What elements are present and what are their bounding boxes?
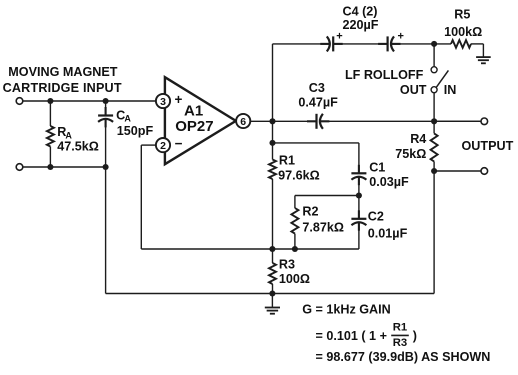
svg-text:OUTPUT: OUTPUT — [462, 139, 514, 153]
svg-text:A: A — [124, 113, 131, 123]
svg-text:6: 6 — [240, 116, 246, 128]
svg-text:R2: R2 — [302, 204, 318, 218]
svg-text:150pF: 150pF — [117, 124, 154, 138]
svg-text:0.03µF: 0.03µF — [369, 175, 409, 189]
svg-text:CARTRIDGE INPUT: CARTRIDGE INPUT — [3, 81, 122, 95]
svg-text:C2: C2 — [368, 210, 384, 224]
svg-text:R4: R4 — [410, 132, 426, 146]
svg-text:100kΩ: 100kΩ — [444, 25, 482, 39]
svg-text:R5: R5 — [454, 8, 470, 22]
svg-text:2: 2 — [160, 140, 166, 152]
svg-text:OP27: OP27 — [175, 118, 213, 135]
svg-text:3: 3 — [160, 96, 166, 108]
svg-text:IN: IN — [444, 83, 457, 97]
svg-text:G = 1kHz GAIN: G = 1kHz GAIN — [302, 303, 391, 317]
svg-text:7.87kΩ: 7.87kΩ — [302, 220, 344, 234]
svg-text:R1: R1 — [393, 322, 407, 334]
svg-text:R3: R3 — [393, 337, 407, 349]
svg-text:0.01µF: 0.01µF — [368, 227, 408, 241]
svg-text:R3: R3 — [279, 258, 295, 272]
svg-text:C3: C3 — [309, 81, 325, 95]
svg-text:−: − — [175, 136, 183, 151]
svg-text:97.6kΩ: 97.6kΩ — [278, 169, 320, 183]
svg-text:C4 (2): C4 (2) — [343, 5, 378, 19]
svg-text:47.5kΩ: 47.5kΩ — [57, 140, 99, 154]
svg-text:+: + — [336, 30, 342, 42]
svg-text:220µF: 220µF — [343, 18, 379, 32]
svg-text:0.47µF: 0.47µF — [298, 96, 338, 110]
svg-text:MOVING MAGNET: MOVING MAGNET — [8, 65, 117, 79]
svg-text:100Ω: 100Ω — [279, 272, 310, 286]
svg-text:): ) — [413, 329, 417, 343]
svg-text:= 0.101 ( 1 +: = 0.101 ( 1 + — [316, 329, 387, 343]
svg-text:+: + — [174, 92, 182, 107]
svg-text:OUT: OUT — [400, 83, 427, 97]
svg-text:C1: C1 — [369, 161, 385, 175]
svg-text:+: + — [397, 30, 403, 42]
svg-text:= 98.677 (39.9dB) AS SHOWN: = 98.677 (39.9dB) AS SHOWN — [316, 350, 491, 364]
svg-text:R1: R1 — [279, 154, 295, 168]
svg-text:75kΩ: 75kΩ — [395, 147, 426, 161]
svg-text:LF ROLLOFF: LF ROLLOFF — [345, 68, 424, 82]
